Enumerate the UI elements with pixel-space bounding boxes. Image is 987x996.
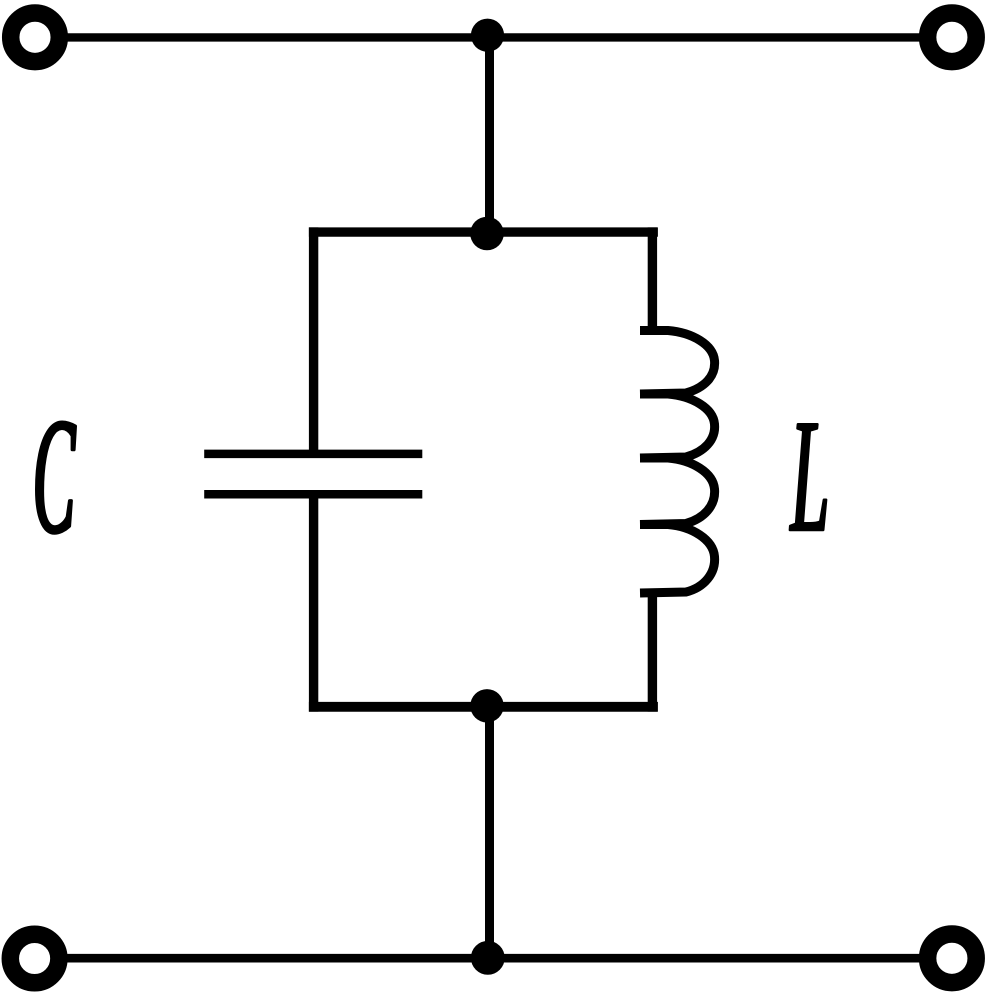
terminal T3 (bottom-left): [10, 934, 59, 983]
wire tank top: [309, 227, 658, 236]
terminal T1 (top-left): [11, 13, 60, 62]
wire left branch upper: [309, 227, 318, 450]
wire top rail: [66, 33, 920, 41]
wire bottom drop (tank bottom to bottom rail): [485, 702, 494, 958]
wire right branch upper: [648, 227, 657, 331]
wire top drop (top rail to tank top): [485, 37, 494, 236]
label C: [37, 422, 76, 533]
node junction dot bottom rail: [471, 941, 505, 975]
terminal T2 (top-right): [928, 13, 977, 62]
node junction dot tank bottom: [470, 689, 503, 722]
wire right branch lower: [648, 592, 657, 712]
node junction dot top rail: [471, 19, 504, 52]
capacitor C (two parallel plates): [204, 454, 422, 494]
node junction dot tank top: [470, 217, 504, 251]
label L: [790, 424, 826, 530]
wire left branch lower: [309, 498, 318, 712]
wire tank bottom: [309, 702, 658, 712]
inductor L coil: [640, 331, 715, 594]
wire bottom rail: [66, 954, 920, 963]
terminal T4 (bottom-right): [928, 934, 977, 983]
